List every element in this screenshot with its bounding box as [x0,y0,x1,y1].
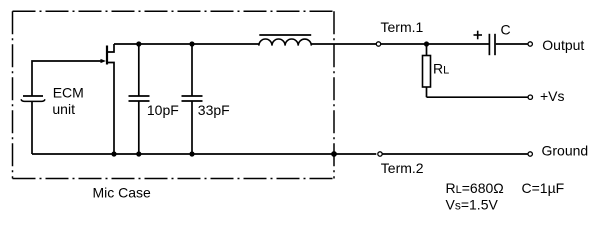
svg-text:Ground: Ground [542,142,589,158]
terminal Output open circle [528,42,532,46]
svg-text:Term.1: Term.1 [381,19,424,35]
wire top rail Term.1 to cap C [381,43,489,45]
wire gate lead from capsule to JFET gate [32,61,102,96]
node junction RL top [424,41,429,46]
capacitor C plus sign [474,31,483,40]
svg-text:10pF: 10pF [147,102,179,118]
node junction top rail cap2 [189,41,194,46]
wire capsule bottom to ground rail [31,102,33,155]
capacitor C2 33pF [182,44,203,154]
transistor Q1 gate arrow [101,59,107,63]
inductor L1 [259,35,312,46]
wire top rail [114,43,259,45]
resistor RL body [423,44,431,97]
svg-text:Mic Case: Mic Case [93,185,152,201]
svg-text:RL=680Ω: RL=680Ω [446,180,504,196]
terminal Ground open circle [528,152,532,156]
transistor Q1 JFET channel [106,46,108,65]
capacitor C1 10pF [129,44,150,154]
terminal +Vs open circle [528,95,532,99]
node junction ground case edge [331,151,337,157]
svg-text:C: C [501,21,511,37]
node junction ground cap2 [189,151,194,156]
mic case dashed boundary [13,11,335,178]
wire ground rail right segment [383,153,529,155]
svg-text:+Vs: +Vs [540,88,565,104]
node junction ground cap1 [136,151,141,156]
svg-text:unit: unit [52,101,75,117]
svg-text:ECM: ECM [53,85,84,101]
svg-text:Term.2: Term.2 [381,160,424,176]
label ECM unit [52,85,83,117]
transistor Q1 source lead [107,63,114,155]
svg-text:Output: Output [542,37,584,53]
wire cap C to output terminal [496,43,528,45]
svg-text:Vs=1.5V: Vs=1.5V [446,196,499,212]
wire ground rail [32,153,376,155]
node junction top rail cap1 [136,41,141,46]
capacitor C plates [489,34,495,55]
wire top rail inductor to case edge [311,43,376,45]
ECM capsule element [21,96,45,101]
node junction ground source [111,151,116,156]
terminal Term.1 open circle [376,42,380,46]
wire RL bottom to +Vs terminal [427,96,529,98]
terminal Term.2 open circle [378,152,382,156]
svg-text:33pF: 33pF [198,102,230,118]
svg-text:C=1µF: C=1µF [522,180,565,196]
transistor Q1 drain lead [107,44,114,52]
